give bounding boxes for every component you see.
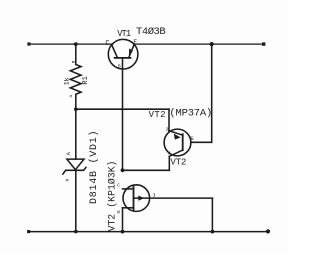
terminal bottom-left [27, 230, 30, 233]
JFET channel bar [133, 187, 135, 211]
diode VD1 zener cathode bar [63, 167, 86, 174]
terminal bottom-right [266, 229, 270, 233]
svg-text:R1: R1 [82, 76, 90, 84]
transistor VT2 base bar (vertical) [182, 134, 184, 150]
transistor VT2 emitter arrow [174, 134, 181, 140]
svg-text:T4Ø3B: T4Ø3B [136, 26, 165, 38]
svg-text:и: и [117, 210, 120, 216]
transistor VT1 collector diagonal [112, 45, 118, 58]
wire top rail right [134, 43, 262, 45]
transistor VT1 emitter arrow [129, 48, 133, 56]
wire top rail left [31, 43, 113, 45]
svg-text:в: в [72, 60, 77, 63]
svg-text:к: к [64, 178, 70, 181]
transistor VT1 emitter diagonal [129, 44, 135, 58]
wire R1 top lead [75, 44, 77, 64]
transistor VT2 collector diagonal (lower) [169, 150, 182, 156]
svg-text:VT2: VT2 [170, 157, 186, 168]
resistor R1 [70, 65, 81, 97]
svg-text:с: с [117, 182, 120, 188]
JFET gate arrow [138, 196, 144, 201]
svg-text:з: з [153, 192, 156, 198]
node junction R1 top [74, 42, 78, 46]
node junction right rail top [210, 42, 214, 46]
node junction right rail/bottom [211, 230, 215, 234]
svg-text:C: C [105, 40, 109, 48]
diode VD1 zener triangle [67, 159, 84, 170]
wire right rail upper segment [211, 44, 213, 142]
svg-text:VT1: VT1 [117, 29, 131, 39]
node junction source/bottom [121, 230, 125, 234]
wire emitter VT2mid horizontal [123, 169, 170, 171]
svg-text:а: а [69, 95, 74, 98]
node junction base/emitter wire [121, 168, 125, 172]
JFET drain lead horizontal [123, 188, 134, 190]
node junction zener/bottom [74, 230, 78, 234]
wire emitter VT2mid vertical [168, 156, 170, 170]
transistor VT3 JFET circle [123, 185, 150, 212]
terminal top-left [27, 42, 30, 45]
node junction R1 bottom / collector wire [74, 107, 78, 111]
wire bottom rail [29, 231, 267, 233]
svg-text:VT2 (KP1Ø3K): VT2 (KP1Ø3K) [107, 160, 118, 231]
svg-text:VT2: VT2 [149, 110, 166, 120]
transistor VT1 base bar [115, 57, 131, 59]
svg-text:1k: 1k [64, 77, 72, 85]
svg-text:D814B (VD1): D814B (VD1) [88, 130, 100, 204]
wire VT2 base lead to right rail [191, 141, 212, 143]
wire zener to bottom rail [75, 170, 77, 231]
transistor VT2 middle circle [164, 129, 191, 156]
JFET source lead horizontal [123, 207, 134, 209]
wire R1 bottom to junction [75, 96, 77, 159]
transistor VT2 emitter diagonal (upper) [169, 131, 183, 136]
svg-text:(MP37A): (MP37A) [169, 107, 212, 119]
terminal top-right [262, 42, 265, 45]
wire collector of VT2mid (horizontal) [76, 108, 169, 110]
JFET gate line [134, 197, 213, 199]
wire collector of VT2mid (vertical) [168, 109, 170, 131]
wire right rail lower segment [211, 198, 213, 231]
transistor VT1 circle [108, 39, 138, 69]
wire JFET source to bottom rail [122, 208, 124, 232]
svg-text:э: э [166, 126, 169, 132]
wire VT1 base lead (vertical) [122, 58, 124, 170]
svg-text:б: б [118, 64, 121, 70]
svg-text:E: E [133, 39, 137, 46]
